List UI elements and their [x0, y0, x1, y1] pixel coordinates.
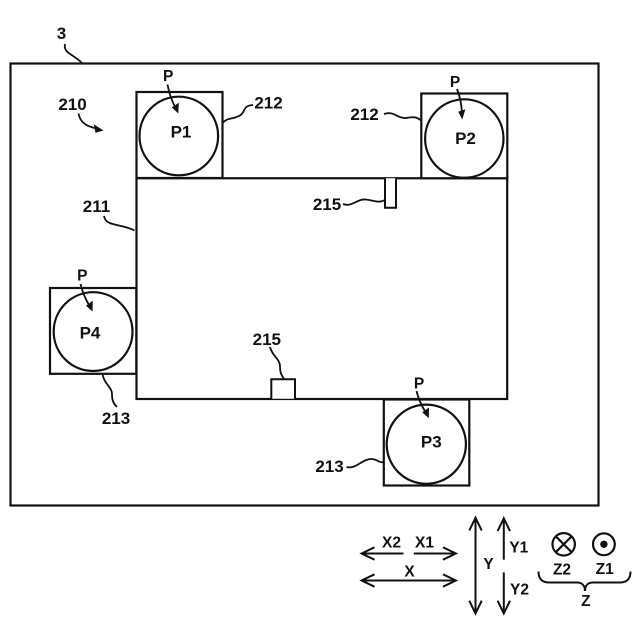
- svg-text:P4: P4: [80, 324, 101, 343]
- bearing square 213 (left, P4): [50, 288, 136, 374]
- legend: Y1 arrow (up): [498, 518, 510, 559]
- svg-text:215: 215: [253, 330, 281, 349]
- legend: Y2 arrow (down): [498, 572, 510, 613]
- svg-text:Z: Z: [581, 593, 591, 610]
- svg-text:210: 210: [58, 95, 86, 114]
- tab 215 (top): [385, 178, 396, 207]
- svg-text:Z1: Z1: [596, 561, 614, 578]
- arrow for label 210: [79, 114, 98, 129]
- symbol Z1 (circle with dot): [593, 533, 615, 555]
- svg-text:P2: P2: [455, 129, 476, 148]
- svg-text:212: 212: [350, 105, 378, 124]
- arrow P to P1: [168, 85, 176, 109]
- legend: Y double arrow: [469, 518, 481, 614]
- leader for label 3: [65, 44, 82, 63]
- brace under Z1/Z2: [539, 572, 631, 592]
- svg-text:X1: X1: [415, 534, 434, 551]
- svg-text:X: X: [404, 564, 415, 581]
- leader for label 211: [104, 216, 135, 231]
- leader 215 top: [343, 199, 385, 204]
- svg-text:Y1: Y1: [509, 540, 528, 557]
- svg-text:215: 215: [313, 195, 341, 214]
- svg-text:Y2: Y2: [510, 582, 529, 599]
- svg-text:P: P: [414, 375, 424, 392]
- svg-text:3: 3: [57, 24, 66, 43]
- arrow P to P3: [417, 391, 426, 412]
- svg-text:P1: P1: [171, 123, 192, 142]
- svg-text:P3: P3: [421, 433, 442, 452]
- svg-text:X2: X2: [382, 534, 401, 551]
- arrow P to P2: [457, 89, 462, 113]
- main body rectangle 211: [137, 178, 508, 399]
- arrow P to P4: [81, 284, 90, 306]
- circle P3: [387, 405, 466, 484]
- outer housing rectangle 3: [11, 64, 599, 506]
- svg-text:P: P: [77, 268, 87, 285]
- svg-text:211: 211: [83, 197, 110, 216]
- leader 215 bottom: [270, 347, 284, 379]
- circle P4: [54, 292, 133, 371]
- leader 212 right: [384, 113, 421, 120]
- circle P2: [425, 99, 503, 177]
- svg-text:Z2: Z2: [553, 562, 571, 579]
- leader 212 left: [223, 105, 254, 123]
- svg-text:P: P: [163, 68, 173, 85]
- legend: X double arrow: [362, 574, 456, 586]
- svg-text:Y: Y: [483, 556, 494, 573]
- bearing square 212 (top-left, P1): [137, 92, 223, 178]
- svg-text:213: 213: [102, 409, 130, 428]
- bearing square 212 (top-right, P2): [421, 94, 507, 179]
- tab 215 (bottom): [271, 379, 295, 398]
- svg-text:P: P: [450, 74, 460, 91]
- symbol Z2 (circle with X): [553, 533, 575, 555]
- svg-text:213: 213: [315, 457, 343, 476]
- leader 213 right: [347, 459, 384, 467]
- leader 213 left: [103, 374, 118, 407]
- circle P1: [140, 97, 219, 176]
- svg-text:212: 212: [254, 94, 282, 113]
- bearing square 213 (bottom, P3): [384, 400, 470, 486]
- legend: X2/X1 split double arrow: [362, 547, 456, 559]
